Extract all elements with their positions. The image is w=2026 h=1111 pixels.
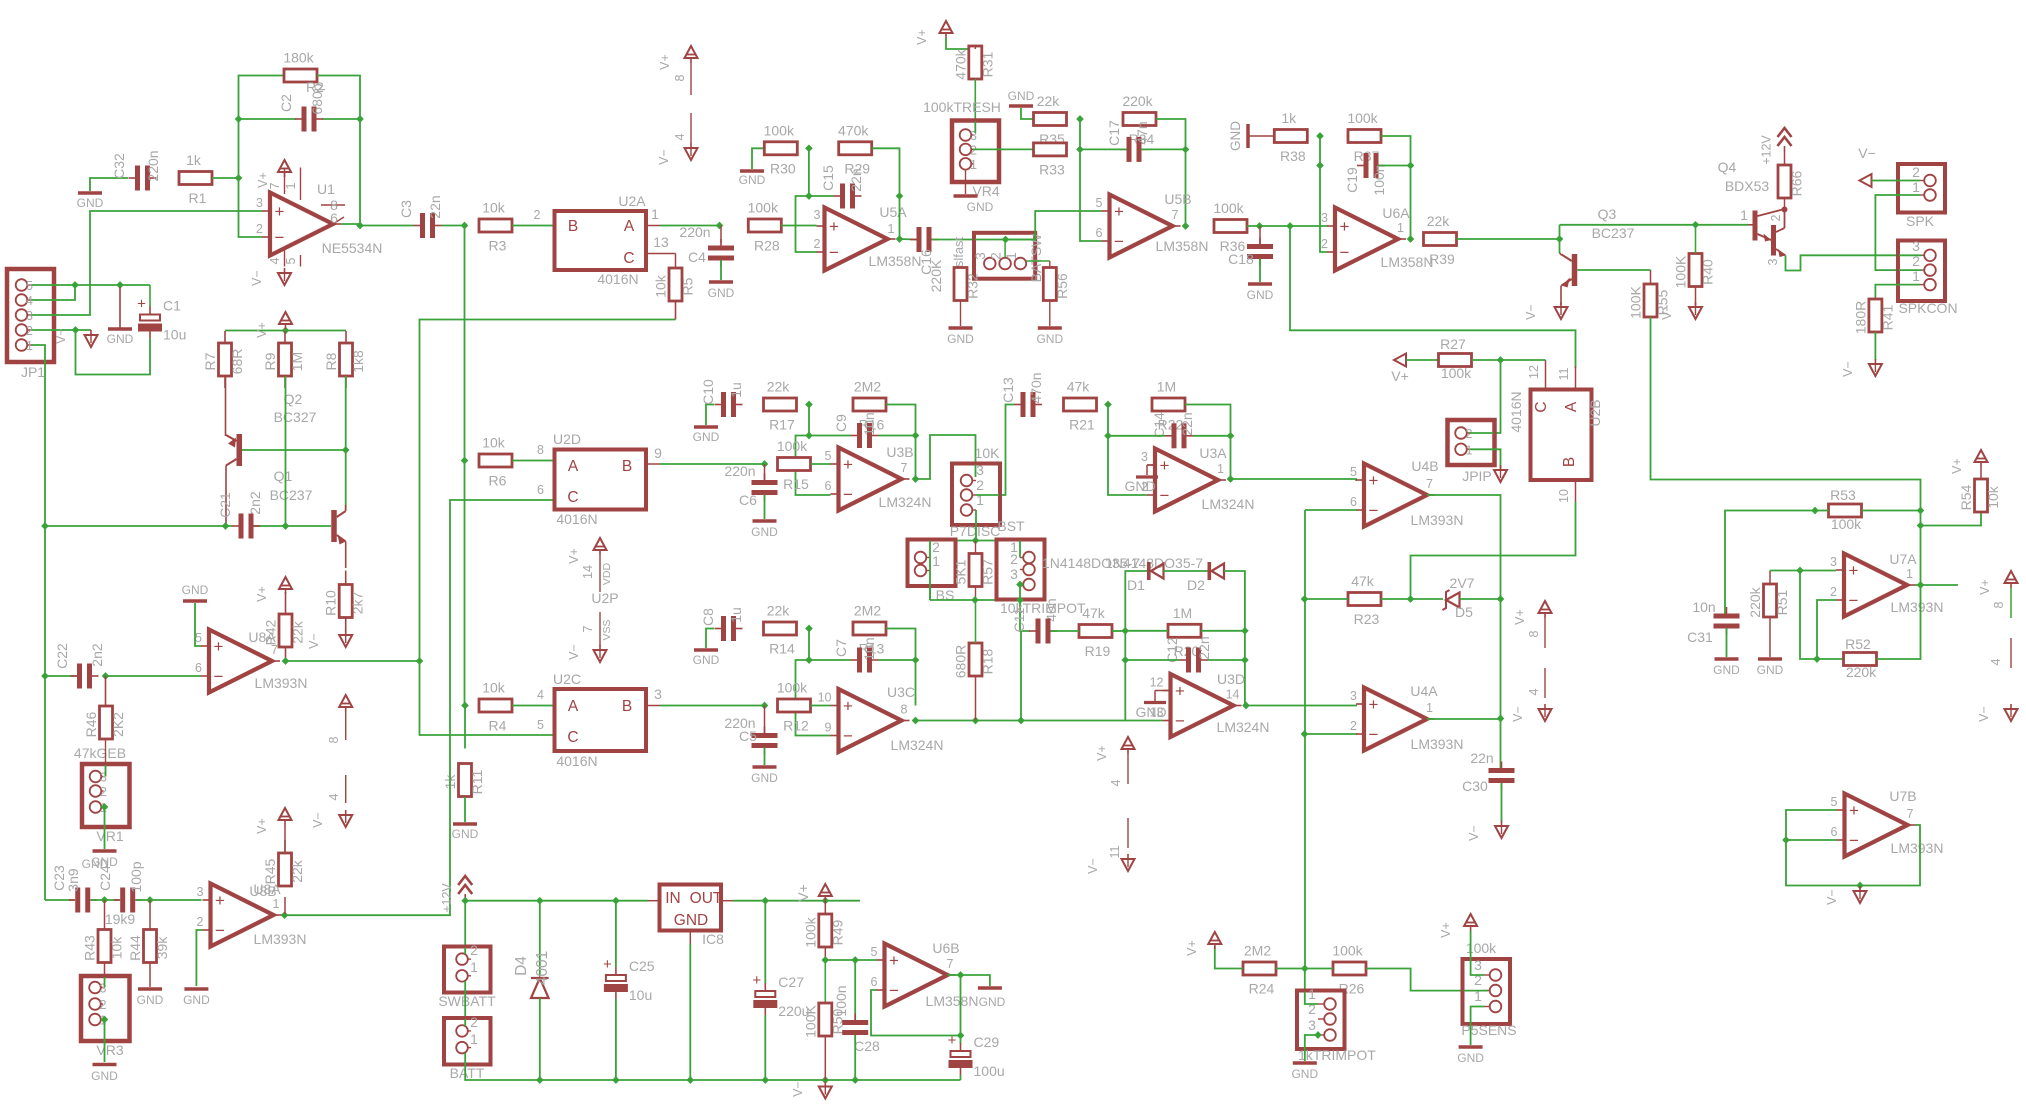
svg-text:C10: C10 [700, 379, 716, 405]
resistor R43 10k [82, 930, 125, 963]
junction R18 bottom [972, 717, 980, 725]
svg-text:1M: 1M [1157, 379, 1176, 395]
svg-text:1: 1 [1217, 462, 1224, 476]
capacitor C7 10n [833, 637, 879, 672]
wire plus node down to R52 line [1800, 571, 1843, 660]
polarized capacitor C29 100u [948, 1032, 1005, 1079]
wire R24 left to V+ [1215, 946, 1243, 969]
junction left rail C22 [41, 672, 49, 680]
wire R23 to D5 [1381, 598, 1443, 600]
svg-text:180k: 180k [283, 50, 314, 66]
svg-text:2k7: 2k7 [350, 592, 366, 615]
junction U7B V- tap [1856, 882, 1864, 890]
wire junction down to trimpot [1305, 969, 1318, 1005]
wire DBST pin3 to C11 column [1020, 585, 1030, 632]
junction R33 right [1076, 146, 1084, 154]
wire C29 bottom [960, 1075, 962, 1080]
V+ arrow at P5SENS [1439, 914, 1477, 938]
resistor R33 100k [1034, 143, 1067, 178]
wire C18 to GND [1259, 259, 1261, 283]
svg-text:+: + [843, 455, 853, 474]
op-amp U4B LM393N [1350, 458, 1463, 528]
svg-text:2: 2 [1350, 719, 1357, 733]
label Q3 [1598, 206, 1617, 222]
wire left rail to R24 row [1304, 734, 1306, 969]
junction bottom rail right [1016, 596, 1024, 604]
svg-text:C: C [1533, 401, 1550, 412]
wire SWBATT pin1 to BATT pin2 [464, 981, 466, 1025]
svg-text:1: 1 [970, 158, 977, 172]
transistor Q3 BC237 [1562, 254, 1578, 288]
wire U6B out loop [948, 975, 990, 986]
wire C29 top [960, 1036, 962, 1045]
svg-text:4: 4 [268, 257, 282, 264]
R49 leads [824, 901, 826, 960]
resistor R37 100k [1347, 110, 1381, 164]
svg-text:C3: C3 [398, 200, 414, 218]
svg-text:180R: 180R [1852, 301, 1868, 334]
svg-text:C2: C2 [278, 94, 294, 112]
svg-text:2: 2 [1010, 551, 1018, 567]
svg-text:2: 2 [1769, 214, 1783, 221]
label 19k9 overlap [105, 911, 136, 927]
analog switch U2B 4016N [1531, 390, 1592, 481]
svg-text:7: 7 [271, 643, 278, 657]
svg-text:LM358N: LM358N [1381, 254, 1434, 270]
resistor R22 1M [1152, 379, 1185, 433]
junction U5B output [1182, 222, 1190, 230]
svg-text:BC327: BC327 [274, 409, 317, 425]
svg-text:4016N: 4016N [1508, 391, 1524, 432]
svg-text:B: B [1561, 457, 1578, 467]
wire overlay VR1 pin3 entry [105, 765, 107, 777]
svg-text:7: 7 [1426, 477, 1433, 491]
label BATSW rot [1028, 233, 1044, 283]
wire U2A pin1 to node [660, 225, 720, 227]
junction R20 right [1241, 627, 1249, 635]
svg-text:2: 2 [814, 237, 821, 251]
wire BATSW to U5B pin5 [1006, 211, 1102, 240]
wire U4A out stub [1427, 718, 1501, 720]
polarized capacitor C1 [137, 296, 186, 343]
connector SPK [1898, 164, 1945, 213]
svg-text:100n: 100n [1371, 164, 1387, 195]
label BDX53 Q4 [1725, 178, 1770, 194]
svg-text:100k: 100k [1332, 943, 1363, 959]
svg-text:12: 12 [1527, 365, 1541, 379]
svg-text:4001: 4001 [534, 951, 551, 985]
svg-text:C: C [567, 489, 578, 506]
+12V arrow at SWBATT [440, 876, 472, 913]
op-amp U6B LM358N [871, 940, 979, 1009]
wire P7DISC pin1 down [975, 510, 977, 541]
junction C3/R3 signal node [461, 222, 469, 230]
R18 leads [975, 600, 977, 721]
wire D5 to output column [1460, 598, 1501, 600]
capacitor C3 22n [398, 195, 443, 238]
svg-text:U4B: U4B [1411, 458, 1438, 474]
resistor R30 100k [764, 122, 798, 176]
svg-text:−: − [1849, 831, 1859, 850]
U2C pin3 stub [646, 686, 662, 706]
wire overlay SPKCON pin3 entry [1899, 254, 1922, 256]
wire R54 to column [1921, 512, 1982, 526]
junction left rail C21 branch [41, 522, 49, 530]
svg-text:V−: V− [1511, 706, 1525, 722]
label R27 [1440, 336, 1466, 352]
R50 leads [824, 960, 826, 1080]
svg-text:10n: 10n [861, 637, 877, 660]
svg-text:U7A: U7A [1889, 551, 1917, 567]
wire D1-D2 link [1164, 570, 1208, 572]
svg-text:8: 8 [537, 443, 544, 457]
svg-text:+: + [275, 202, 285, 221]
svg-text:R54: R54 [1958, 484, 1974, 510]
svg-text:GND: GND [708, 286, 735, 300]
R56 lead [1027, 261, 1050, 326]
R31 leads [974, 46, 976, 121]
wire control column up and to R5 [420, 320, 676, 662]
label U2B [1587, 399, 1603, 426]
junction VR1 pin1 [101, 803, 109, 811]
svg-text:470n: 470n [1028, 372, 1044, 403]
svg-text:LM358N: LM358N [1156, 238, 1209, 254]
wire C30 to V- [1501, 783, 1503, 822]
resistor R11 1k [442, 764, 485, 797]
svg-text:11: 11 [1108, 845, 1122, 858]
junction U5A output [896, 235, 904, 243]
svg-text:V−: V− [1858, 145, 1876, 161]
svg-text:−: − [215, 921, 225, 940]
junction rail C28 [851, 1076, 859, 1084]
svg-text:2: 2 [197, 915, 204, 929]
svg-text:3: 3 [26, 309, 33, 323]
svg-text:6: 6 [330, 210, 338, 226]
capacitor C28 [842, 1014, 880, 1055]
svg-text:B: B [622, 698, 632, 715]
ground GND below R11 [452, 824, 479, 841]
wire U6B feedback [871, 990, 961, 1036]
wire U3C out column [915, 660, 917, 706]
wire C23 to C24 [91, 899, 120, 901]
junction C14 left [1104, 432, 1112, 440]
connector SWBATT [444, 942, 491, 993]
svg-text:6: 6 [195, 661, 202, 675]
svg-text:C32: C32 [111, 153, 127, 179]
svg-text:U6A: U6A [1382, 205, 1410, 221]
svg-text:R6: R6 [489, 473, 507, 489]
wire C15 left to node [809, 195, 834, 197]
wire R9 bottom to base node [285, 376, 287, 526]
IC8 pin stubs [648, 901, 733, 944]
R46 lead [105, 676, 107, 706]
svg-text:8: 8 [327, 736, 341, 743]
junction D5 output column [1497, 595, 1505, 603]
svg-text:22k: 22k [289, 859, 305, 883]
op-amp U3D LM324N [1150, 671, 1270, 737]
svg-text:+: + [603, 956, 612, 973]
svg-text:1: 1 [26, 339, 33, 353]
R42 leads [285, 592, 287, 661]
svg-text:1: 1 [1004, 252, 1019, 260]
wire node down to R11 [464, 706, 466, 749]
wire R24 to junction [1276, 968, 1305, 970]
capacitor C24 100p [97, 861, 144, 912]
svg-text:680R: 680R [953, 645, 969, 678]
label SPKCON [1898, 300, 1957, 316]
wire C27 bottom [764, 1015, 766, 1080]
svg-text:47n: 47n [1134, 121, 1150, 144]
svg-text:14: 14 [581, 565, 595, 579]
svg-text:R10: R10 [323, 590, 339, 616]
wire D4 column bottom [539, 998, 541, 1080]
label U2P [591, 590, 618, 606]
junction C9 right [912, 432, 920, 440]
wire signal column to R4 [464, 461, 466, 706]
svg-text:220K: 220K [928, 259, 944, 292]
svg-text:100K: 100K [802, 1004, 818, 1037]
label GND overlap [82, 857, 109, 871]
label 100k R27 [1441, 365, 1472, 381]
svg-text:220n: 220n [145, 150, 161, 181]
wire junction to R26 [1305, 968, 1333, 970]
junction V+ reg tap [821, 897, 829, 905]
junction U8A output [282, 657, 290, 665]
svg-text:100k: 100k [1213, 200, 1244, 216]
junction V+ rail [282, 327, 290, 335]
svg-text:C12: C12 [1164, 637, 1180, 663]
svg-text:R38: R38 [1280, 148, 1306, 164]
wire SPKCON pin1 to R41 [1875, 285, 1920, 299]
ground GND left of U8 zone [182, 583, 209, 601]
svg-text:7: 7 [901, 461, 908, 475]
junction top rail P7DISC [972, 537, 980, 545]
capacitor C17 47n [1106, 120, 1150, 162]
svg-text:R11: R11 [469, 769, 485, 794]
wire control column down to U2C pin5 [420, 661, 555, 735]
wire C19 node to U6A out [1410, 166, 1412, 240]
svg-text:1: 1 [1397, 221, 1404, 235]
svg-text:22k: 22k [290, 620, 306, 644]
VR1 top lead [105, 739, 107, 777]
svg-text:47kGEB: 47kGEB [74, 745, 126, 761]
wire R14 node down to C7 [808, 629, 810, 661]
wire R20 right to column [1201, 630, 1245, 632]
ground GND below R51 [1757, 659, 1784, 677]
resistor R44 39k [127, 930, 170, 963]
junction C22/R46 [102, 672, 110, 680]
svg-text:2V7: 2V7 [1450, 575, 1475, 591]
label R52 [1845, 636, 1871, 652]
wire U3C out rail [916, 720, 1126, 722]
svg-text:1: 1 [470, 959, 478, 975]
wire input line to C21 [45, 525, 232, 527]
svg-text:100k: 100k [777, 680, 808, 696]
wire U4B pin6 rail [1305, 509, 1357, 511]
svg-text:V−: V− [567, 644, 581, 660]
svg-text:SPKCON: SPKCON [1898, 300, 1957, 316]
svg-text:GND: GND [947, 332, 974, 346]
svg-text:BC237: BC237 [270, 487, 313, 503]
wire C27 top [764, 901, 766, 983]
wire BS left vertical [929, 541, 931, 601]
svg-text:GND: GND [1124, 478, 1155, 494]
junction R24/R26 row [1301, 965, 1309, 973]
V+ arrow above U1 [256, 160, 291, 188]
resistor R6 10k [479, 435, 512, 489]
V+ arrow above R31 [915, 21, 953, 45]
resistor R4 10k [479, 680, 512, 734]
svg-text:3: 3 [1141, 450, 1148, 464]
label 4016N U2C [556, 753, 597, 769]
junction feedback C29 [957, 1032, 965, 1040]
wire R37 right down [1381, 136, 1411, 166]
junction R53 left [1811, 507, 1819, 515]
R45 leads [284, 840, 286, 915]
wire C7 right lead [879, 659, 916, 661]
wire U1 output to C3 [341, 224, 414, 226]
junction R44 tap [146, 896, 154, 904]
wire GND to U8A plus [195, 603, 201, 646]
label SPK [1906, 213, 1935, 229]
svg-text:V+: V+ [1391, 368, 1409, 384]
svg-text:R24: R24 [1249, 981, 1275, 997]
wire R51 to U7A plus [1770, 570, 1836, 572]
svg-text:−: − [1340, 243, 1350, 262]
resistor R10 2k7 [323, 571, 366, 632]
svg-text:V+: V+ [915, 29, 929, 45]
svg-text:C5: C5 [739, 728, 757, 744]
svg-text:R8: R8 [323, 352, 339, 370]
capacitor C6 [739, 474, 777, 509]
wire P5SENS pin1 to GND [1471, 1007, 1484, 1046]
resistor R38 1k [1274, 110, 1307, 164]
svg-text:GND: GND [1457, 1051, 1484, 1065]
wire R1 to feedback node [212, 177, 239, 179]
svg-text:C1: C1 [163, 298, 181, 314]
svg-text:R51: R51 [1774, 589, 1790, 615]
ground GND at C8 [693, 650, 720, 667]
label 100kTRESH [923, 99, 1001, 115]
svg-text:LM324N: LM324N [1202, 496, 1255, 512]
svg-text:LM358N: LM358N [869, 253, 922, 269]
wire junction to U6B pin5 [825, 959, 876, 961]
junction Q1 base / R9 [282, 522, 290, 530]
wire C14 right lead [1193, 435, 1231, 437]
wire R27 junction to pin12 [1472, 359, 1546, 361]
wire R34 right down [1156, 119, 1186, 149]
svg-text:2M2: 2M2 [854, 379, 881, 395]
svg-text:7: 7 [268, 182, 282, 189]
wire C2 right [322, 118, 360, 120]
wire U7A out right [1915, 584, 1958, 586]
U2B pin12 lead [1527, 360, 1546, 390]
junction C21 left / Q2 collector [222, 522, 230, 530]
resistor R49 100k [802, 914, 845, 948]
U3D plus GND [1135, 691, 1170, 721]
capacitor C23 3n9 [51, 865, 97, 913]
svg-text:2: 2 [470, 1014, 478, 1030]
svg-text:2: 2 [970, 143, 977, 157]
svg-text:3: 3 [1321, 211, 1328, 225]
annotation 8/4 x691 [673, 63, 691, 143]
capacitor C21 2n2 [217, 491, 263, 538]
svg-text:−: − [1175, 712, 1185, 731]
rotated GND at R38 [1228, 121, 1274, 151]
svg-text:R43: R43 [82, 935, 98, 961]
wire SPK pin1 to SPKCON pin2 [1875, 195, 1921, 270]
junction R54 tap [1917, 522, 1925, 530]
svg-text:2M2: 2M2 [1244, 943, 1271, 959]
label 100k R53 [1831, 516, 1862, 532]
V- arrow U2P [567, 644, 607, 662]
label U8A overlap [253, 881, 281, 897]
wire R16 right column [886, 405, 916, 481]
wire R3 to U2A pin2 [512, 225, 555, 227]
capacitor C15 22n [820, 165, 864, 209]
R54 top lead [1980, 467, 1982, 479]
junction U8B output [281, 911, 289, 919]
wire Q3 collector column [1559, 225, 1561, 253]
wire GND elbow C8 [706, 629, 714, 649]
svg-text:3: 3 [1350, 689, 1357, 703]
ground GND below P5SENS [1457, 1047, 1484, 1065]
wire overlay JPIP pin2 entry [1469, 432, 1494, 434]
U2P pin7 VSS [581, 612, 613, 646]
wire C28 column [854, 960, 856, 1020]
junction rail C25 [612, 1076, 620, 1084]
wire JP1 pin2 to V- node [32, 329, 92, 331]
svg-text:7: 7 [1172, 208, 1179, 222]
diode D5 zener 2V7 [1443, 575, 1475, 620]
capacitor C19 100n [1344, 153, 1387, 196]
junction U7A output [1917, 581, 1925, 589]
svg-text:4: 4 [1989, 658, 2003, 665]
pin label 4 U2C [537, 688, 544, 702]
wire BATT pin1 to bottom rail [465, 1053, 960, 1080]
wire rail to U4A pin2 [1305, 733, 1357, 735]
resistor R26 100k [1332, 943, 1366, 997]
transistor Q2 BC327 [226, 375, 243, 525]
svg-text:V+: V+ [567, 548, 581, 564]
svg-text:V+: V+ [795, 884, 811, 902]
C5 top lead [764, 706, 766, 734]
svg-text:R30: R30 [770, 160, 796, 176]
annotation 4/11 stems [1108, 754, 1128, 858]
resistor R54 10k [1958, 479, 2001, 512]
op-amp U7B LM393N [1831, 788, 1944, 857]
wire C17 right [1141, 148, 1186, 150]
svg-text:C30: C30 [1462, 778, 1488, 794]
svg-text:D1: D1 [1127, 577, 1145, 593]
wire U3A out to U4B pin5 [1231, 479, 1358, 480]
U3A plus GND [1124, 465, 1158, 494]
svg-text:2M2: 2M2 [854, 603, 881, 619]
svg-text:2: 2 [1466, 427, 1473, 441]
svg-text:U3C: U3C [887, 684, 915, 700]
wire feedback node up to R2/C2 [239, 76, 285, 179]
op-amp U8B LM393N [197, 883, 307, 947]
svg-text:V+: V+ [1185, 940, 1199, 956]
wire C6 to GND [764, 495, 766, 520]
junction DBST pin3 [1016, 581, 1024, 589]
wire D1 left down to R19 node [1125, 571, 1147, 631]
junction U6B output [957, 971, 965, 979]
svg-text:−: − [843, 727, 853, 746]
wire C16 to BATSW [932, 239, 1002, 241]
junction R35/R34 [1076, 115, 1084, 123]
svg-text:1k: 1k [186, 152, 202, 168]
